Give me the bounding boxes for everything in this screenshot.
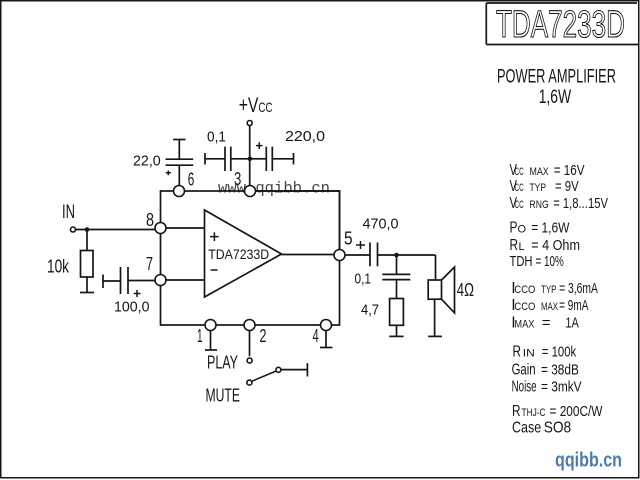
ground tick under 4,7: [389, 335, 403, 337]
svg-text:R: R: [512, 403, 521, 420]
svg-text:4Ω: 4Ω: [457, 280, 474, 300]
wire IN to pin8: [76, 229, 156, 231]
wire under speaker: [434, 299, 436, 336]
spec Vcc typ: [510, 178, 579, 195]
svg-text:100,0: 100,0: [114, 299, 150, 316]
svg-text:0,1: 0,1: [355, 271, 372, 288]
switch pivot contact: [276, 367, 281, 372]
op-amp triangle U1: [205, 210, 282, 297]
svg-text:= 9V: = 9V: [555, 178, 579, 195]
svg-text:TDH: TDH: [510, 253, 533, 270]
wire: [86, 277, 88, 293]
spec Gain: [512, 361, 579, 378]
terminal tick right of 220,0: [293, 153, 295, 165]
capacitor C 220,0 plates: [266, 147, 272, 171]
svg-text:Gain: Gain: [512, 361, 536, 378]
svg-text:= 1,6W: = 1,6W: [531, 220, 570, 237]
wire pin8 to triangle: [166, 227, 205, 229]
svg-text:R: R: [510, 237, 519, 254]
capacitor C 470,0 plates: [370, 243, 378, 267]
pin 7: [155, 275, 166, 286]
svg-text:CC: CC: [258, 99, 272, 115]
wire: [128, 280, 155, 282]
wire pin4 down: [325, 331, 327, 348]
IC U1 body rectangle: [161, 191, 340, 325]
wire down to C 0,1: [396, 255, 398, 274]
spec RL: [510, 237, 581, 254]
svg-text:3: 3: [234, 169, 241, 189]
junction output node: [394, 253, 399, 258]
junction IN node: [85, 227, 90, 232]
ground tick under speaker: [428, 335, 442, 337]
wire pin5 to C470: [345, 254, 370, 256]
wire pin7 to triangle: [166, 279, 205, 281]
node +Vcc label: [239, 94, 273, 117]
wire: [396, 325, 398, 336]
resistor R 10k: [81, 251, 94, 278]
pin 3: [245, 186, 256, 197]
svg-text:=: =: [542, 315, 551, 332]
switch contact top: [247, 358, 252, 363]
pin 6: [174, 186, 185, 197]
svg-text:PLAY: PLAY: [207, 353, 238, 373]
svg-text:= 38dB: = 38dB: [541, 361, 579, 378]
svg-text:CC: CC: [515, 199, 524, 211]
svg-text:SO8: SO8: [544, 420, 572, 437]
pin 4: [321, 320, 332, 331]
ground tick under pin4: [320, 347, 333, 349]
spec Po: [510, 220, 571, 237]
spec Rthj-c: [512, 403, 603, 420]
svg-text:= 10%: = 10%: [536, 253, 564, 270]
svg-text:4,7: 4,7: [361, 302, 379, 319]
svg-text:TYP: TYP: [530, 182, 547, 194]
svg-text:= 1,8...15V: = 1,8...15V: [553, 195, 608, 212]
pin 1: [205, 320, 216, 331]
svg-text:1A: 1A: [565, 315, 579, 332]
wire pin2 down: [249, 331, 251, 357]
spec Vcc rng: [510, 195, 609, 212]
svg-text:1: 1: [197, 326, 203, 346]
svg-text:10k: 10k: [47, 257, 70, 277]
svg-text:4: 4: [313, 326, 319, 346]
svg-text:R: R: [513, 344, 522, 361]
capacitor C 0,1 top left terminal tick: [204, 153, 206, 165]
wire Vcc vertical: [249, 126, 251, 186]
svg-text:MUTE: MUTE: [206, 386, 241, 406]
svg-text:CCO: CCO: [514, 301, 535, 313]
wire: [178, 140, 180, 160]
wire: [272, 158, 293, 160]
svg-text:IN: IN: [62, 202, 75, 223]
svg-text:2: 2: [260, 326, 267, 346]
svg-text:Noise: Noise: [512, 378, 537, 395]
plus sign of C 470,0: [356, 241, 365, 249]
speaker cone: [442, 267, 455, 313]
svg-text:1,6W: 1,6W: [539, 87, 572, 108]
svg-text:220,0: 220,0: [285, 128, 325, 145]
svg-text:= 16V: = 16V: [554, 162, 585, 179]
plus sign of C 220,0: [256, 142, 263, 149]
spec Vcc max: [510, 162, 585, 179]
capacitor C 22,0 plates: [166, 159, 194, 165]
svg-text:= 3mkV: = 3mkV: [541, 378, 582, 395]
svg-text:7: 7: [146, 254, 153, 274]
svg-text:= 100k: = 100k: [542, 344, 577, 361]
wire apex to pin5: [282, 254, 335, 256]
wire: [205, 158, 225, 160]
svg-text:8: 8: [146, 210, 154, 230]
svg-text:0,1: 0,1: [207, 129, 226, 146]
terminal +Vcc: [247, 121, 252, 126]
wire: [251, 158, 267, 160]
svg-text:CCO: CCO: [514, 284, 535, 296]
plus sign of C 22,0: [166, 171, 171, 176]
terminal tick mute: [306, 363, 308, 376]
svg-text:470,0: 470,0: [363, 216, 399, 233]
spec Rin: [513, 344, 577, 361]
svg-text:IN: IN: [523, 348, 535, 360]
wire C470 to speaker: [378, 255, 436, 280]
wire top rail pin3 to right corner: [256, 191, 340, 250]
speaker LS 4ohm box: [428, 280, 441, 299]
wire: [231, 158, 249, 160]
title box: [486, 3, 638, 45]
svg-text:RNG: RNG: [530, 199, 549, 211]
switch arm: [252, 371, 276, 381]
wire: [103, 280, 121, 282]
svg-text:CC: CC: [515, 182, 524, 194]
svg-text:= 200C/W: = 200C/W: [550, 403, 604, 420]
svg-text:+V: +V: [239, 94, 259, 117]
svg-text:22,0: 22,0: [133, 153, 161, 170]
svg-text:THJ-C: THJ-C: [522, 407, 546, 419]
switch contact bottom: [247, 380, 252, 385]
svg-text:TDA7233D: TDA7233D: [208, 246, 269, 262]
spec TDH: [510, 253, 564, 270]
wire: [86, 231, 88, 251]
svg-text:= 4 Ohm: = 4 Ohm: [531, 237, 580, 254]
minus sign inverting input: [211, 269, 218, 271]
capacitor C 100,0 plates: [121, 267, 129, 294]
svg-text:MAX: MAX: [530, 166, 550, 178]
wire: [396, 280, 398, 299]
svg-text:CC: CC: [515, 166, 524, 178]
svg-text:= 9mA: = 9mA: [559, 297, 588, 314]
svg-text:TYP: TYP: [541, 284, 556, 296]
svg-text:6: 6: [188, 169, 195, 189]
wire: [178, 165, 180, 185]
svg-text:MAX: MAX: [514, 319, 535, 331]
capacitor C 100,0 left terminal tick: [102, 275, 104, 289]
spec Case SO8: [512, 420, 571, 437]
svg-text:L: L: [519, 241, 525, 253]
pin 2: [244, 320, 255, 331]
pin 5: [334, 250, 345, 261]
svg-text:O: O: [518, 224, 527, 236]
capacitor C 0,1 top plates: [225, 147, 231, 171]
svg-text:POWER AMPLIFIER: POWER AMPLIFIER: [497, 67, 616, 88]
svg-text:TDA7233D: TDA7233D: [496, 4, 625, 46]
capacitor C 0,1 right plates: [382, 274, 410, 279]
plus sign of C 100,0: [134, 290, 141, 297]
pin 8: [155, 223, 166, 234]
svg-text:P: P: [510, 220, 518, 237]
svg-text:= 3,6mA: = 3,6mA: [559, 280, 598, 297]
svg-text:MAX: MAX: [541, 301, 558, 313]
wire pin1 down: [210, 331, 212, 351]
spec Imax: [511, 315, 579, 332]
spec Icco typ: [511, 280, 598, 297]
wire switch to tick: [281, 369, 307, 371]
plus sign non-inverting input: [210, 232, 219, 241]
spec Icco max: [511, 297, 588, 314]
svg-text:5: 5: [344, 228, 353, 248]
svg-text:Case: Case: [512, 420, 541, 437]
resistor R 4,7: [390, 299, 404, 326]
svg-text:qqibb.cn: qqibb.cn: [555, 449, 622, 472]
junction Vcc node: [248, 157, 253, 162]
terminal tick pin1 PLAY: [205, 349, 217, 351]
spec Noise: [512, 378, 582, 395]
capacitor C 22,0 top terminal tick: [173, 139, 185, 141]
ground tick under 10k: [80, 292, 94, 294]
terminal IN: [71, 227, 76, 232]
